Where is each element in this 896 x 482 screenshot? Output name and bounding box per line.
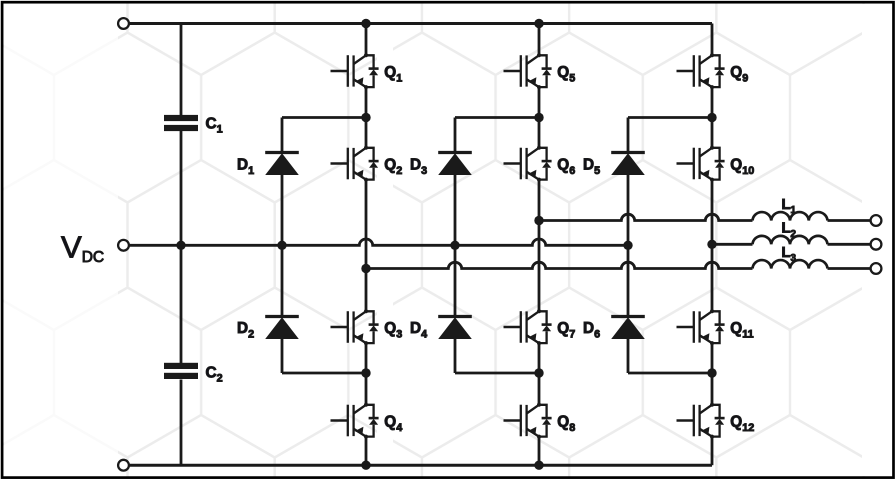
label D3 — [410, 157, 427, 177]
label L2 — [782, 221, 797, 240]
wire: leg 2 vertical bus — [538, 24, 541, 466]
diode D1 (upper clamp) — [265, 153, 299, 176]
node: leg 3 upper clamp junction — [707, 113, 716, 122]
wire: phase B line to L1 — [539, 214, 753, 220]
terminal: VDC midpoint input — [118, 240, 129, 251]
label D4 — [410, 320, 427, 340]
wire: DC-link left rail — [180, 24, 183, 466]
label D2 — [237, 320, 254, 340]
label L1 — [782, 197, 797, 216]
wire: clamp string to neutral — [627, 175, 630, 317]
transistor Q5 (IGBT with antiparallel diode) — [504, 53, 552, 89]
terminal: L2 phase output — [871, 239, 882, 250]
node: leg 1 upper clamp junction — [361, 113, 370, 122]
transistor Q4 (IGBT with antiparallel diode) — [331, 403, 379, 439]
label Q8 — [557, 414, 575, 434]
node: phase C output tap (leg 3) — [707, 240, 716, 249]
transistor Q2 (IGBT with antiparallel diode) — [331, 146, 379, 182]
label Q4 — [384, 414, 402, 434]
node: D3/D4 neutral junction — [450, 241, 459, 250]
wire: positive DC rail (top bus) — [129, 22, 712, 25]
label Q11 — [730, 320, 753, 340]
transistor Q3 (IGBT with antiparallel diode) — [331, 309, 379, 345]
label L3 — [782, 245, 797, 264]
transistor Q12 (IGBT with antiparallel diode) — [677, 403, 725, 439]
label D5 — [583, 157, 600, 177]
wire: leg 1 vertical bus — [365, 24, 368, 466]
node: phase A output tap (leg 1) — [361, 264, 370, 273]
transistor Q11 (IGBT with antiparallel diode) — [677, 309, 725, 345]
label Q7 — [557, 320, 575, 340]
wire: D1 string to upper junction — [282, 118, 366, 153]
terminal: L1 phase output — [871, 215, 882, 226]
wire: D3 string to upper junction — [455, 118, 539, 153]
capacitor C2 — [164, 363, 198, 379]
label D6 — [583, 320, 600, 340]
label D1 — [237, 157, 254, 177]
label Q2 — [384, 157, 402, 177]
node: bottom bus / leg-2 junction — [534, 461, 543, 470]
diode D6 (lower clamp) — [611, 317, 645, 340]
terminal: DC- input — [118, 460, 129, 471]
wire: L1 to output terminal — [828, 219, 871, 222]
wire: D2 string to lower junction — [282, 339, 366, 373]
label Q3 — [384, 320, 402, 340]
inductor L2 — [753, 236, 828, 244]
wire: phase C line to L2 — [712, 243, 753, 246]
wire: clamp string to neutral — [454, 175, 457, 317]
node: leg 3 lower clamp junction — [707, 368, 716, 377]
node: phase B output tap (leg 2) — [534, 216, 543, 225]
node: leg 1 lower clamp junction — [361, 368, 370, 377]
wire: D5 string to upper junction — [628, 118, 712, 153]
label C2 — [206, 365, 223, 385]
label Q1 — [384, 64, 402, 84]
node: D5/D6 neutral junction — [623, 241, 632, 250]
label Q5 — [557, 64, 575, 84]
terminal: L3 phase output — [871, 263, 882, 274]
label Q6 — [557, 157, 575, 177]
transistor Q6 (IGBT with antiparallel diode) — [504, 146, 552, 182]
transistor Q9 (IGBT with antiparallel diode) — [677, 53, 725, 89]
wire: D6 string to lower junction — [628, 339, 712, 373]
label Q9 — [730, 64, 748, 84]
wire: D4 string to lower junction — [455, 339, 539, 373]
terminal: DC+ input — [118, 18, 129, 29]
diode D4 (lower clamp) — [438, 317, 472, 340]
wire: negative DC rail (bottom bus) — [129, 464, 712, 467]
transistor Q1 (IGBT with antiparallel diode) — [331, 53, 379, 89]
wire: leg 3 vertical bus — [711, 24, 714, 466]
transistor Q7 (IGBT with antiparallel diode) — [504, 309, 552, 345]
label Q12 — [730, 414, 754, 434]
wire: L2 to output terminal — [828, 243, 871, 246]
node: D1/D2 neutral junction — [277, 241, 286, 250]
diode D2 (lower clamp) — [265, 317, 299, 340]
node: bottom bus / leg-1 junction — [361, 461, 370, 470]
node: top bus / leg-2 junction — [534, 19, 543, 28]
wire: L3 to output terminal — [828, 267, 871, 270]
transistor Q10 (IGBT with antiparallel diode) — [677, 146, 725, 182]
label VDC — [61, 230, 104, 267]
wire: clamp string to neutral — [281, 175, 284, 317]
node: DC-link midpoint — [176, 241, 185, 250]
node: top bus / leg-1 junction — [361, 19, 370, 28]
capacitor C1 — [164, 115, 198, 131]
wire: neutral rail — [129, 239, 628, 245]
transistor Q8 (IGBT with antiparallel diode) — [504, 403, 552, 439]
node: leg 2 lower clamp junction — [534, 368, 543, 377]
wire: phase A line to L3 — [366, 262, 753, 268]
label C1 — [206, 116, 223, 136]
diode D5 (upper clamp) — [611, 153, 645, 176]
diode D3 (upper clamp) — [438, 153, 472, 176]
label Q10 — [730, 157, 754, 177]
inductor L1 — [753, 212, 828, 220]
node: leg 2 upper clamp junction — [534, 113, 543, 122]
inductor L3 — [753, 260, 828, 268]
